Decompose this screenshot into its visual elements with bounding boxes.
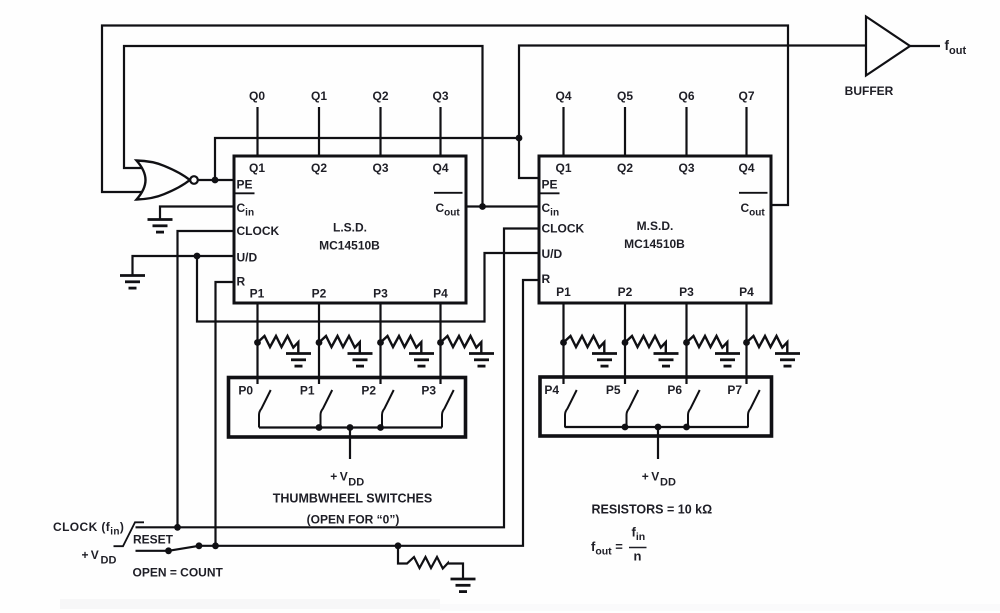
svg-text:CLOCK: CLOCK bbox=[237, 224, 280, 238]
svg-text:RESET: RESET bbox=[133, 533, 174, 547]
svg-text:RESISTORS = 10 kΩ: RESISTORS = 10 kΩ bbox=[592, 503, 713, 517]
svg-text:P2: P2 bbox=[361, 384, 376, 398]
wire: buffer input from PE node bbox=[519, 46, 866, 139]
svg-text:n: n bbox=[634, 549, 642, 564]
svg-text:P4: P4 bbox=[544, 383, 559, 397]
svg-text:P3: P3 bbox=[373, 287, 388, 301]
svg-text:P7: P7 bbox=[727, 383, 742, 397]
svg-text:MC14510B: MC14510B bbox=[624, 237, 685, 251]
ground below NOR (LSD Cin) bbox=[148, 220, 173, 233]
buffer output wire bbox=[910, 45, 940, 47]
svg-text:Q2: Q2 bbox=[372, 89, 388, 103]
clock rising edge symbol bbox=[114, 522, 145, 546]
svg-text:MC14510B: MC14510B bbox=[319, 239, 380, 253]
Q output stubs MSD bbox=[564, 107, 747, 156]
svg-text:Q1: Q1 bbox=[555, 161, 571, 175]
Q output stubs LSD bbox=[258, 107, 441, 156]
svg-text:U/D: U/D bbox=[237, 251, 258, 265]
svg-text:P1: P1 bbox=[250, 287, 265, 301]
svg-text:OPEN = COUNT: OPEN = COUNT bbox=[133, 566, 224, 580]
switch lever OPEN=COUNT bbox=[169, 546, 200, 551]
wire: LSD Cout to MSD Cin bbox=[466, 205, 539, 207]
ground at LSD U/D bbox=[120, 276, 145, 289]
svg-text:Q3: Q3 bbox=[372, 161, 388, 175]
node: switch throw on reset line bbox=[196, 542, 203, 549]
node: PE bus / buffer tap bbox=[516, 135, 523, 142]
wire: clock net fin to LSD CLOCK and MSD CLOCK bbox=[136, 229, 540, 528]
NOR gate U1 bbox=[137, 161, 198, 200]
svg-text:BUFFER: BUFFER bbox=[845, 84, 894, 98]
svg-text:Q4: Q4 bbox=[555, 89, 571, 103]
svg-text:P3: P3 bbox=[421, 384, 436, 398]
node: LSD R on reset line bbox=[212, 542, 219, 549]
P preset pin stubs LSD bbox=[258, 303, 441, 384]
svg-text:M.S.D.: M.S.D. bbox=[637, 219, 674, 233]
svg-text:Q3: Q3 bbox=[678, 161, 694, 175]
wire: LSD R to reset line bbox=[216, 282, 235, 546]
wire: +VDD switch feed bbox=[136, 550, 169, 552]
svg-text:Q2: Q2 bbox=[311, 161, 327, 175]
wire: net B feedback LSD Cout to NOR upper input bbox=[124, 46, 483, 207]
wire: PE bus riser and MSD PE bbox=[215, 138, 539, 180]
svg-text:L.S.D.: L.S.D. bbox=[333, 221, 367, 235]
svg-text:U/D: U/D bbox=[542, 247, 563, 261]
svg-text:Q3: Q3 bbox=[432, 89, 448, 103]
svg-text:R: R bbox=[542, 272, 551, 286]
pull-down resistors LSD bank bbox=[258, 336, 312, 366]
faint scan smudge bottom bbox=[60, 599, 440, 609]
svg-text:Q7: Q7 bbox=[738, 89, 754, 103]
svg-text:P2: P2 bbox=[618, 285, 633, 299]
svg-text:P0: P0 bbox=[238, 384, 253, 398]
thumbwheel switch box LSD bbox=[229, 378, 466, 460]
svg-text:Q2: Q2 bbox=[617, 161, 633, 175]
svg-text:Q5: Q5 bbox=[617, 89, 633, 103]
pull-down resistor on reset line bbox=[398, 546, 463, 579]
svg-text:P6: P6 bbox=[667, 383, 682, 397]
Q labels Q0-Q3 bbox=[249, 89, 449, 103]
svg-text:P4: P4 bbox=[433, 287, 448, 301]
svg-text:Q4: Q4 bbox=[738, 161, 754, 175]
svg-text:P3: P3 bbox=[679, 285, 694, 299]
thumbwheel switch box MSD bbox=[540, 377, 772, 459]
svg-text:Q0: Q0 bbox=[249, 89, 265, 103]
svg-text:R: R bbox=[237, 275, 246, 289]
svg-text:Q1: Q1 bbox=[249, 161, 265, 175]
node: reset resistor tap bbox=[395, 542, 402, 549]
formula fout = fin / n bbox=[591, 525, 647, 564]
ground for reset resistor bbox=[451, 579, 476, 592]
node: NOR out / PE bbox=[212, 177, 219, 184]
buffer U2 bbox=[866, 17, 910, 76]
svg-text:P4: P4 bbox=[739, 285, 754, 299]
Q labels Q4-Q7 bbox=[555, 89, 754, 103]
wire: net A feedback MSD Cout to NOR lower input bbox=[102, 26, 788, 206]
MSD chip MC14510B bbox=[539, 156, 771, 303]
svg-text:PE: PE bbox=[542, 178, 558, 192]
svg-text:(OPEN FOR “0”): (OPEN FOR “0”) bbox=[307, 513, 400, 527]
node: LSD U/D bbox=[194, 253, 201, 260]
svg-text:P5: P5 bbox=[606, 383, 621, 397]
node: resistor taps MSD bbox=[560, 339, 567, 346]
pull-down resistors MSD bank bbox=[564, 336, 618, 366]
node: resistor taps LSD bbox=[254, 339, 261, 346]
node: LSD CLOCK on fin line bbox=[174, 524, 181, 531]
node: Cout LSD / Cin MSD / net B bbox=[479, 203, 486, 210]
node: switch pivot bbox=[165, 547, 172, 554]
wire: LSD U/D to ground bbox=[133, 256, 235, 275]
svg-text:PE: PE bbox=[237, 178, 253, 192]
svg-text:CLOCK: CLOCK bbox=[542, 222, 585, 236]
wire: reset line to MSD R bbox=[199, 280, 539, 546]
P preset pin stubs MSD bbox=[564, 303, 747, 384]
wire: NOR output to LSD PE bbox=[198, 179, 235, 181]
svg-text:P1: P1 bbox=[300, 384, 315, 398]
LSD chip MC14510B bbox=[234, 156, 466, 303]
wire: LSD Cin to ground bbox=[160, 207, 234, 220]
svg-text:Q1: Q1 bbox=[311, 89, 327, 103]
svg-text:Q4: Q4 bbox=[432, 161, 448, 175]
svg-text:P2: P2 bbox=[312, 287, 327, 301]
svg-text:Q6: Q6 bbox=[678, 89, 694, 103]
svg-text:P1: P1 bbox=[556, 285, 571, 299]
svg-text:THUMBWHEEL SWITCHES: THUMBWHEEL SWITCHES bbox=[273, 492, 433, 506]
wire: U/D bus LSD to MSD bbox=[197, 253, 539, 322]
